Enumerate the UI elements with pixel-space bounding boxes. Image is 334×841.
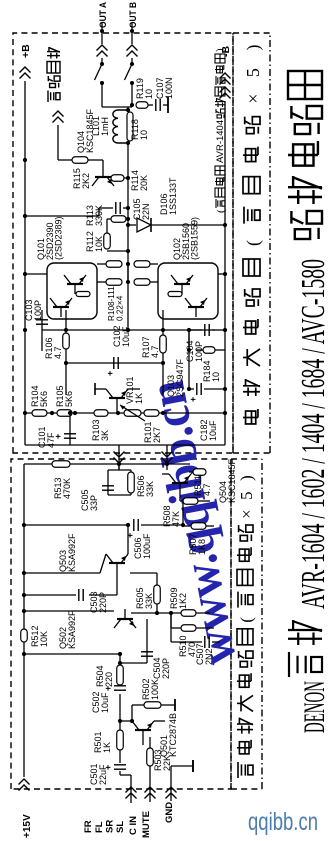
svg-text:qqibb.cn: qqibb.cn	[248, 808, 318, 836]
